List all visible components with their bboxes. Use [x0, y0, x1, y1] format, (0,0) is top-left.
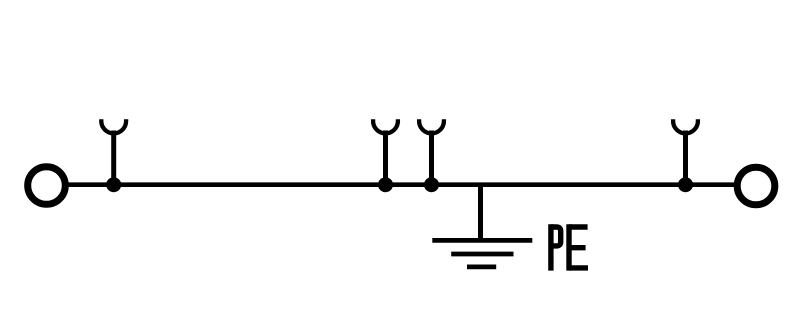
- ground symbol PE earth: [432, 240, 532, 267]
- clamp contact 3: [419, 119, 444, 185]
- wire main bus: [46, 182, 756, 187]
- clamp contact 1: [101, 119, 126, 185]
- junction dot 2: [378, 177, 393, 192]
- junction dot 1: [106, 177, 121, 192]
- clamp contact 2: [373, 119, 398, 185]
- label PE: [551, 224, 588, 270]
- junction dot 4: [678, 177, 693, 192]
- clamp contact 4: [673, 119, 698, 185]
- terminal circle right: [737, 167, 775, 205]
- terminal circle left: [28, 167, 66, 205]
- junction dot 3: [424, 177, 439, 192]
- ground stem wire: [478, 185, 483, 241]
